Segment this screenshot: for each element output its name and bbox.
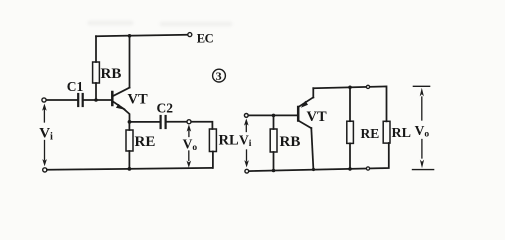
svg-text:EC: EC	[197, 31, 214, 45]
svg-text:RB: RB	[101, 66, 122, 82]
svg-text:RE: RE	[135, 134, 156, 150]
svg-text:VT: VT	[128, 91, 148, 107]
svg-text:RL: RL	[392, 126, 411, 141]
svg-text:RL: RL	[219, 132, 239, 148]
svg-text:3: 3	[216, 69, 222, 83]
svg-text:VT: VT	[307, 109, 327, 125]
svg-text:RE: RE	[361, 126, 380, 141]
svg-text:C2: C2	[157, 100, 174, 115]
svg-text:RB: RB	[280, 134, 301, 150]
svg-text:C1: C1	[67, 79, 84, 94]
